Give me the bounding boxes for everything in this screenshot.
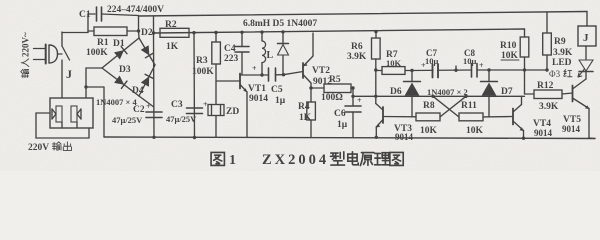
node rail2 start	[152, 31, 155, 34]
wire top rail	[139, 12, 588, 17]
transistor VT1	[216, 74, 247, 138]
node rail3 left	[351, 95, 354, 98]
diode D2	[139, 38, 155, 65]
node R10 bottom	[523, 68, 526, 71]
resistor R1 label	[86, 38, 109, 58]
relay J label	[583, 32, 589, 44]
capacitor C5	[269, 68, 284, 81]
capacitor C5 polarity	[252, 64, 257, 73]
wire top rail to relay	[586, 12, 588, 27]
transistor VT5	[573, 79, 596, 139]
wire VT2 base	[284, 72, 304, 75]
diode D7 label	[501, 87, 513, 97]
node VT4 emitter ground	[522, 137, 525, 140]
node D5 bottom	[282, 73, 285, 76]
transistor VT1 label	[248, 84, 268, 104]
switch J	[62, 32, 70, 98]
resistor R11	[459, 113, 483, 121]
socket left lead	[36, 113, 89, 138]
node D5 top	[281, 30, 284, 33]
node L top	[260, 30, 263, 33]
wire rail3	[353, 95, 525, 97]
resistor R1	[88, 27, 139, 36]
transistor VT5 label	[562, 115, 581, 134]
resistor R3 label	[192, 56, 214, 77]
cross wire B	[440, 95, 468, 117]
capacitor C1 label	[79, 10, 91, 20]
capacitor C5 label	[271, 85, 286, 106]
LED label	[549, 58, 572, 79]
node C3 ground	[193, 136, 196, 139]
node label input 220V text	[21, 32, 31, 78]
capacitor C6 label	[334, 109, 348, 130]
resistor R7	[376, 67, 412, 75]
diode D6	[404, 71, 421, 117]
capacitor C4 label	[224, 44, 239, 64]
node R3 top	[214, 31, 217, 34]
resistor R6	[372, 32, 381, 97]
capacitor C8 label	[463, 48, 477, 66]
resistor R9	[543, 12, 552, 70]
wire bridge top lead	[138, 31, 141, 38]
diode D3	[102, 68, 139, 96]
diode D3 label	[119, 65, 131, 75]
resistor R2 label	[165, 20, 179, 52]
wire ground rail	[104, 137, 595, 139]
switch J label	[66, 67, 72, 81]
capacitor C7	[433, 63, 439, 79]
node D6 top	[410, 69, 413, 72]
wire rail2 riser	[153, 16, 155, 33]
resistor R6 label	[347, 42, 367, 62]
inductor value label 6.8mH and D5 1N4007	[243, 19, 317, 29]
resistor R12 label	[537, 81, 559, 112]
capacitor C6 polarity	[357, 96, 362, 105]
socket label 220V output	[28, 142, 71, 153]
capacitor C1 value label	[107, 5, 164, 15]
transistor VT2 label	[312, 66, 332, 87]
transistor VT4 label	[533, 119, 553, 138]
bridge value label 1N4007x4	[96, 97, 137, 107]
wire VT3 base to R8	[383, 116, 416, 118]
wire V+ vertical x154	[153, 33, 156, 137]
wire switch to C1 junction	[62, 32, 88, 34]
inductor L label	[267, 50, 274, 61]
capacitor C2	[146, 112, 162, 118]
transistor VT4	[513, 96, 524, 138]
capacitor C4	[235, 32, 249, 75]
transistor VT3 label	[394, 124, 414, 142]
resistor R3	[212, 33, 221, 105]
plug P1	[34, 45, 63, 64]
zener ZD lead	[215, 116, 217, 138]
resistor R4 label	[298, 102, 312, 123]
diode D5	[278, 32, 289, 75]
wire to ground rail left end	[86, 87, 104, 137]
diode D1 label	[113, 39, 125, 49]
caption figure title	[211, 152, 403, 168]
diode D2 label	[141, 28, 153, 38]
node C7C8 mid	[454, 66, 457, 72]
node C1-R1 left junction	[87, 14, 89, 33]
diode D7	[481, 70, 498, 117]
resistor R10	[520, 29, 529, 94]
node C3 top	[192, 31, 195, 34]
relay J box	[578, 26, 596, 46]
capacitor C8	[472, 63, 478, 79]
node socket junction	[84, 85, 87, 88]
resistor R8 label	[420, 101, 438, 136]
diode D4 label	[132, 86, 144, 96]
capacitor C8 polarity	[479, 61, 484, 70]
wire C3 branch	[193, 33, 196, 137]
wire C8 to R10	[477, 69, 525, 71]
resistor R12	[525, 90, 573, 99]
inductor L	[262, 32, 266, 75]
capacitor C3 label	[166, 100, 197, 124]
LED light arrow	[578, 70, 584, 78]
wire bridge left vertex to socket node	[86, 68, 102, 98]
resistor R9 label	[553, 37, 573, 58]
resistor R11 label	[461, 101, 484, 136]
node VT3 emitter ground	[375, 136, 378, 139]
capacitor C1	[88, 7, 139, 21]
node L bottom	[260, 73, 263, 76]
node R9 bottom	[545, 68, 548, 71]
capacitor C3 polarity	[203, 100, 208, 109]
zener diode ZD	[208, 105, 224, 116]
wire rail2	[154, 29, 525, 33]
node VT3 collector rail	[374, 95, 377, 98]
capacitor C2 label	[112, 105, 145, 125]
capacitor C7 label	[425, 48, 439, 66]
node C4 top	[240, 31, 243, 34]
node D2 junction	[137, 16, 140, 33]
transistor VT3	[376, 96, 383, 137]
wire VT1 collector line	[240, 74, 269, 76]
LED indicator	[579, 46, 593, 79]
resistor R8	[416, 113, 440, 121]
socket 220V outlet	[50, 98, 93, 128]
resistor R5 label	[321, 75, 343, 103]
node D7 top	[487, 68, 490, 71]
capacitor C6	[345, 88, 361, 137]
wire bridge bottom to C2 line	[139, 96, 154, 107]
capacitor C3	[187, 108, 203, 114]
resistor R2	[160, 28, 189, 37]
node R7 left	[374, 68, 377, 71]
resistor R4	[307, 88, 316, 137]
cross wire A	[431, 95, 459, 117]
capacitor C2 polarity	[146, 102, 151, 111]
diode D1	[102, 38, 139, 68]
diode D6 label	[390, 87, 402, 97]
wire R11 to VT4 base	[483, 116, 513, 118]
diode pair label 1N4007x2	[427, 87, 468, 97]
zener ZD label	[226, 107, 239, 117]
diode D4	[139, 65, 155, 96]
node VT2 collector	[309, 86, 312, 89]
node C2 ground	[152, 136, 155, 139]
resistor R10 label	[500, 41, 519, 61]
wire R10 R9 link	[525, 69, 548, 71]
wire C7 C8 link	[412, 69, 472, 72]
node R6 top	[374, 30, 377, 33]
transistor VT2	[303, 33, 313, 88]
resistor R7 label	[386, 50, 402, 68]
capacitor C7 polarity	[421, 61, 426, 70]
resistor R5	[311, 84, 353, 93]
node R5 right	[351, 86, 354, 89]
